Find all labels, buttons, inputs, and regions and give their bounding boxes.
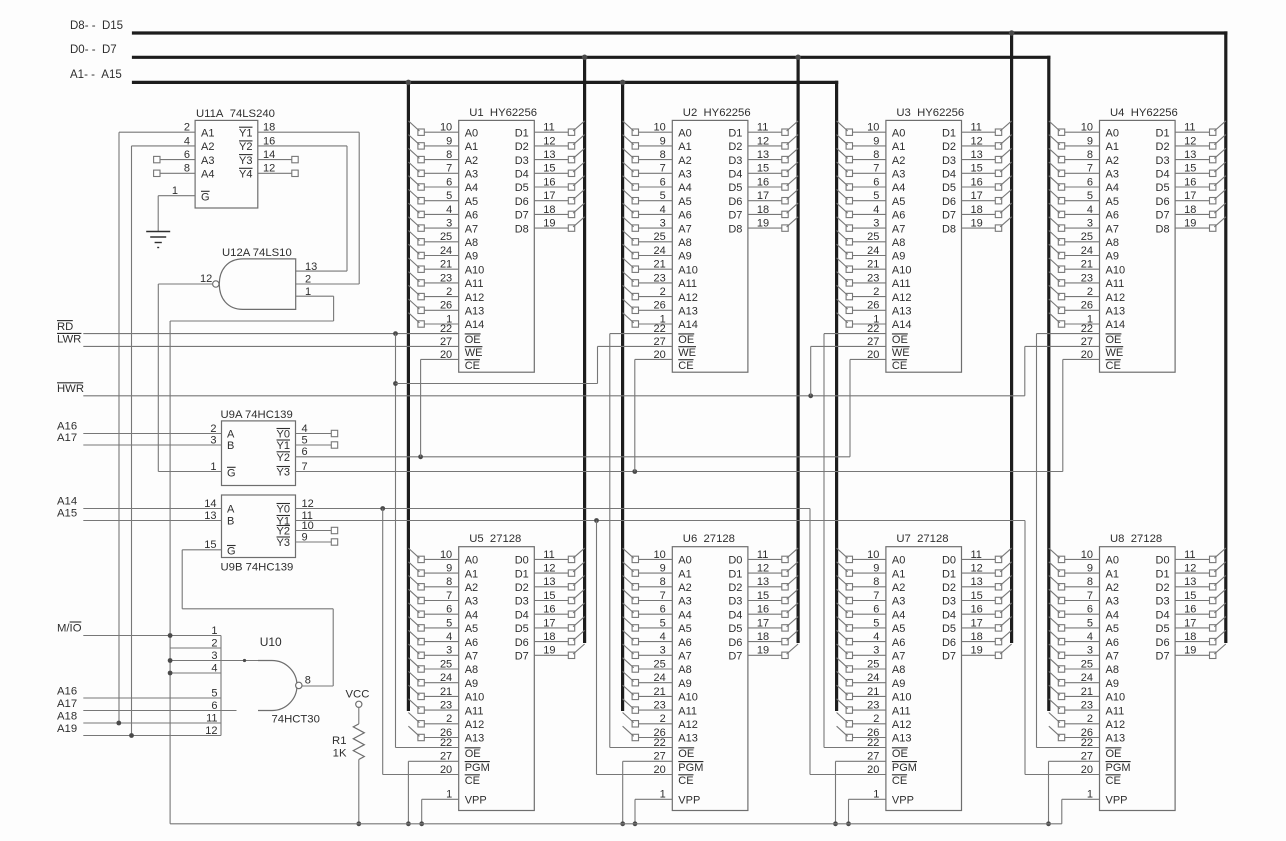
svg-text:7: 7 [660,163,666,175]
svg-text:A2: A2 [678,155,691,167]
SRAM U3 HY62256 [837,107,1012,372]
svg-text:A2: A2 [892,582,905,594]
svg-text:D8: D8 [1156,223,1170,235]
svg-text:16: 16 [1184,176,1196,188]
svg-text:A12: A12 [678,292,698,304]
svg-text:A8: A8 [892,664,905,676]
svg-text:A12: A12 [892,292,912,304]
svg-text:8: 8 [1087,149,1093,161]
svg-text:13: 13 [971,149,983,161]
svg-text:D3: D3 [942,155,956,167]
svg-text:A11: A11 [678,705,697,717]
wire U10 pin3 (gate input) [170,660,258,662]
svg-text:16: 16 [543,176,555,188]
svg-text:OE: OE [1106,748,1122,760]
wire A14 to U9B pin14 [83,508,221,510]
svg-text:D6: D6 [515,196,529,208]
svg-text:16: 16 [543,604,555,616]
svg-text:A10: A10 [892,264,912,276]
svg-text:10: 10 [867,549,879,561]
svg-text:15: 15 [543,590,555,602]
svg-text:A12: A12 [1106,292,1126,304]
svg-text:13: 13 [757,576,769,588]
svg-text:25: 25 [867,658,879,670]
svg-text:D0: D0 [942,555,956,567]
svg-text:13: 13 [1184,576,1196,588]
svg-text:A3: A3 [1106,596,1119,608]
svg-text:18: 18 [971,631,983,643]
wire Y0 select row (U5/U7 CE) [296,508,811,510]
svg-text:A16: A16 [57,421,77,433]
svg-text:4: 4 [873,631,879,643]
svg-text:WE: WE [678,347,696,359]
svg-text:1: 1 [210,461,216,473]
svg-text:A5: A5 [678,623,691,635]
SRAM U2 HY62256 [623,107,799,372]
svg-text:19: 19 [971,218,983,230]
wire M/IO column (vertical) [169,321,171,824]
svg-text:9: 9 [446,135,452,147]
svg-text:7: 7 [873,163,879,175]
svg-text:D3: D3 [515,155,529,167]
svg-text:9: 9 [1087,135,1093,147]
svg-text:D1: D1 [728,568,742,580]
net label RD [57,320,73,322]
svg-text:D2: D2 [728,582,742,594]
svg-text:15: 15 [757,590,769,602]
svg-text:A5: A5 [1106,623,1119,635]
wire U1 CE from Y2 [421,358,459,360]
svg-text:VPP: VPP [678,795,700,807]
svg-text:D4: D4 [515,609,529,621]
svg-text:17: 17 [971,617,983,629]
svg-text:25: 25 [654,658,666,670]
svg-text:25: 25 [440,231,452,243]
svg-text:A2: A2 [465,582,478,594]
wire ground rail [170,823,1062,825]
svg-text:CE: CE [892,360,907,372]
data bus drop to U4/U8 [1224,31,1227,643]
wire U4 OE chain to U8 OE [1037,333,1100,335]
SRAM U4 HY62256 [1049,107,1226,372]
svg-text:D7: D7 [1156,210,1170,222]
svg-text:A0: A0 [892,127,905,139]
wire HWR row [83,395,1025,397]
svg-text:1K: 1K [333,748,347,760]
svg-text:A0: A0 [1106,127,1119,139]
svg-text:9: 9 [1087,563,1093,575]
wire U8 CE from Y1 [1025,774,1100,776]
wire A17 to U9A pin3 [83,444,221,446]
wire Y1 select row (U6/U8 CE) [296,520,1026,522]
wire U10 pin4 [170,672,221,674]
svg-text:17: 17 [543,617,555,629]
svg-text:A14: A14 [892,319,912,331]
wire A18 to U10 pin11 [83,722,221,724]
svg-text:5: 5 [1087,617,1093,629]
svg-text:23: 23 [1081,700,1093,712]
buffer U11A 74LS240 [172,108,275,208]
wire U11A pin2 (A1) to A18 column [119,131,195,133]
svg-text:OE: OE [892,748,908,760]
svg-text:A8: A8 [892,237,905,249]
svg-text:A2: A2 [465,155,478,167]
svg-text:8: 8 [305,674,311,686]
svg-text:16: 16 [757,604,769,616]
svg-text:21: 21 [654,686,666,698]
wire U12A pin12 to U9A G [158,283,212,285]
svg-text:12: 12 [1184,135,1196,147]
junction U7 PGM/rail [833,821,838,826]
svg-text:2: 2 [446,713,452,725]
wire U3 CE from Y2 [850,358,886,360]
svg-text:VCC: VCC [346,689,370,701]
svg-text:A7: A7 [678,223,691,235]
svg-text:24: 24 [1081,245,1093,257]
svg-text:A10: A10 [892,692,912,704]
svg-text:15: 15 [1184,590,1196,602]
data bus drop to U1/U5 [583,56,586,643]
svg-text:25: 25 [440,658,452,670]
wire U7 OE stub [824,747,886,749]
svg-text:3: 3 [446,218,452,230]
svg-text:A7: A7 [465,223,478,235]
wire U7 PGM to rail [836,760,886,762]
wire U7 CE from Y0 [810,774,886,776]
svg-text:D3: D3 [1156,155,1170,167]
svg-text:D6: D6 [728,637,742,649]
svg-text:11: 11 [1184,122,1195,134]
svg-text:A2: A2 [201,141,214,153]
svg-text:A15: A15 [57,508,77,520]
svg-text:8: 8 [446,149,452,161]
wire A19 to U10 pin12 [83,735,221,737]
svg-text:A0: A0 [465,555,478,567]
svg-text:10: 10 [1081,122,1093,134]
3-input NAND U12A 74LS10 [200,247,317,309]
junction D0-bus / U1 data drop [582,55,588,61]
U10 input pin ladder [205,625,221,737]
svg-text:15: 15 [757,163,769,175]
junction U5 PGM/rail [406,821,411,826]
svg-text:18: 18 [757,631,769,643]
wire A17 to U10 pin6 [83,710,236,712]
svg-text:4: 4 [660,204,666,216]
svg-text:A14: A14 [678,319,698,331]
svg-text:WE: WE [465,347,483,359]
bus D8--D15 [132,31,1228,34]
wire U2 OE chain to U6 OE [610,333,673,335]
svg-text:A8: A8 [678,237,691,249]
svg-text:D7: D7 [1156,651,1170,663]
svg-text:U6 27128: U6 27128 [683,533,735,545]
svg-text:D6: D6 [942,196,956,208]
svg-text:A17: A17 [57,432,77,444]
svg-text:A12: A12 [465,719,485,731]
svg-text:23: 23 [654,272,666,284]
svg-text:A13: A13 [1106,306,1126,318]
svg-text:17: 17 [1184,190,1196,202]
wire U10 output to U9B G [182,549,221,551]
wire U11A pin4 (A2) to A19 column [132,145,196,147]
svg-text:8: 8 [446,576,452,588]
svg-text:U5 27128: U5 27128 [469,533,521,545]
svg-text:15: 15 [1184,163,1196,175]
svg-text:A9: A9 [892,678,905,690]
svg-text:Y3: Y3 [239,155,252,167]
svg-text:A14: A14 [465,319,485,331]
svg-text:D5: D5 [515,623,529,635]
svg-text:D6: D6 [1156,196,1170,208]
svg-text:8: 8 [660,149,666,161]
svg-text:11: 11 [757,549,768,561]
wire A16 to U9A pin2 [83,433,221,435]
svg-text:A16: A16 [57,685,77,697]
svg-text:13: 13 [757,149,769,161]
svg-text:G: G [227,546,236,558]
svg-text:U4 HY62256: U4 HY62256 [1110,107,1178,119]
svg-text:PGM: PGM [678,762,703,774]
svg-text:A8: A8 [678,664,691,676]
svg-text:19: 19 [757,645,769,657]
svg-text:13: 13 [543,149,555,161]
svg-text:PGM: PGM [1106,762,1131,774]
svg-text:6: 6 [1087,176,1093,188]
svg-text:7: 7 [446,163,452,175]
junction A-bus / U1 drop [406,80,412,86]
svg-text:4: 4 [446,631,452,643]
svg-text:PGM: PGM [465,762,490,774]
junction A-bus / U2 drop [620,80,626,86]
svg-text:D3: D3 [728,596,742,608]
svg-text:3: 3 [873,645,879,657]
svg-text:A1: A1 [465,141,478,153]
wire branch to U2 WE [396,383,598,385]
svg-text:A9: A9 [465,678,478,690]
svg-text:A6: A6 [892,210,905,222]
junction pin3 [168,658,173,663]
terminal U11A pin6 (A3) [154,156,160,162]
svg-text:12: 12 [1184,563,1196,575]
svg-text:8: 8 [660,576,666,588]
svg-text:Y3: Y3 [277,467,290,479]
bus D0--D7 [132,56,1051,59]
ground [146,231,170,233]
junction R1/rail [356,821,361,826]
svg-text:A1: A1 [465,568,478,580]
svg-text:U12A 74LS10: U12A 74LS10 [222,247,292,259]
svg-text:D6: D6 [728,196,742,208]
svg-text:12: 12 [200,273,212,285]
svg-text:OE: OE [1106,334,1122,346]
svg-text:A6: A6 [1106,210,1119,222]
svg-text:A7: A7 [1106,223,1119,235]
svg-text:U8 27128: U8 27128 [1110,533,1162,545]
svg-text:A8: A8 [1106,237,1119,249]
svg-text:A1: A1 [1106,141,1119,153]
svg-text:A4: A4 [465,609,478,621]
svg-text:5: 5 [1087,190,1093,202]
svg-text:OE: OE [465,334,481,346]
svg-text:D8: D8 [728,223,742,235]
wire U7 VPP to rail [849,798,886,800]
svg-text:24: 24 [867,672,879,684]
svg-text:D0: D0 [515,555,529,567]
svg-text:16: 16 [971,604,983,616]
svg-text:OE: OE [678,334,694,346]
svg-text:OE: OE [678,748,694,760]
svg-text:12: 12 [971,563,983,575]
wire VCC to R1 [358,707,360,724]
junction U6 PGM/rail [620,821,625,826]
svg-text:3: 3 [1087,218,1093,230]
wire Y3 select row (U2/U4 CE) [296,471,1063,473]
svg-text:17: 17 [757,617,769,629]
svg-text:5: 5 [873,617,879,629]
svg-text:A11: A11 [892,705,911,717]
svg-text:2: 2 [873,286,879,298]
wire U3 OE chain to U7 OE [824,333,886,335]
svg-text:D0: D0 [1156,555,1170,567]
svg-text:VPP: VPP [1106,795,1128,807]
svg-text:A7: A7 [465,651,478,663]
svg-text:A10: A10 [678,692,698,704]
svg-text:24: 24 [440,672,452,684]
wire A16 to U10 pin5 [83,697,221,699]
svg-text:A5: A5 [892,196,905,208]
svg-text:A6: A6 [892,637,905,649]
svg-text:A11: A11 [1106,705,1125,717]
svg-text:21: 21 [440,686,452,698]
svg-text:19: 19 [1184,645,1196,657]
svg-text:17: 17 [543,190,555,202]
svg-text:A0: A0 [678,555,691,567]
svg-text:LWR: LWR [57,334,81,346]
wire U10 pin2 [170,647,221,649]
svg-text:6: 6 [446,176,452,188]
svg-text:3: 3 [446,645,452,657]
terminal U11A pin12 (Y4) [258,172,292,174]
svg-text:18: 18 [757,204,769,216]
svg-text:A5: A5 [892,623,905,635]
svg-text:CE: CE [465,775,480,787]
svg-text:U9A 74HC139: U9A 74HC139 [221,409,293,421]
svg-text:5: 5 [660,617,666,629]
svg-text:12: 12 [543,563,555,575]
svg-text:16: 16 [971,176,983,188]
bus drop to U4/U8 (from D0--D7) [1047,56,1050,711]
junction Y0/U5-CE [380,506,385,511]
svg-text:17: 17 [1184,617,1196,629]
svg-text:19: 19 [1184,218,1196,230]
svg-text:A: A [227,504,235,516]
svg-text:A12: A12 [465,292,485,304]
junction U5 VPP/rail [419,821,424,826]
svg-text:2: 2 [873,713,879,725]
EPROM U6 27128 [623,533,799,810]
terminal U11A pin8 (A4) [154,170,160,176]
wire U2 WE stub [598,345,673,347]
svg-text:D1: D1 [728,127,742,139]
wire U11A pin18 (Y1) to U12A pin2 [258,131,359,133]
svg-text:G: G [227,468,236,480]
svg-text:16: 16 [757,176,769,188]
svg-text:23: 23 [440,272,452,284]
svg-text:15: 15 [971,163,983,175]
junction D0-bus / U2 data drop [795,55,801,61]
svg-text:23: 23 [440,700,452,712]
svg-text:A11: A11 [678,278,697,290]
svg-text:B: B [227,516,234,528]
svg-text:26: 26 [1081,300,1093,312]
svg-text:D8: D8 [942,223,956,235]
data bus drop to U2/U6 [796,56,799,643]
svg-text:A14: A14 [1106,319,1126,331]
EPROM U5 27128 [408,533,584,810]
svg-text:D8- - D15: D8- - D15 [70,20,123,32]
svg-text:D5: D5 [515,182,529,194]
svg-text:A2: A2 [678,582,691,594]
svg-text:18: 18 [1184,204,1196,216]
svg-text:U11A 74LS240: U11A 74LS240 [196,108,275,120]
svg-text:25: 25 [1081,658,1093,670]
svg-text:D3: D3 [1156,596,1170,608]
EPROM U8 27128 [1049,533,1226,810]
svg-text:21: 21 [1081,686,1093,698]
svg-text:A10: A10 [465,692,485,704]
svg-text:4: 4 [1087,204,1093,216]
wire U6 CE from Y1 [597,774,673,776]
svg-text:A3: A3 [892,596,905,608]
svg-text:A13: A13 [892,306,912,318]
junction M/IO pin1 [168,633,173,638]
svg-text:D4: D4 [942,609,956,621]
svg-text:A19: A19 [57,723,77,735]
svg-text:A9: A9 [678,251,691,263]
svg-text:A4: A4 [1106,182,1119,194]
svg-text:A6: A6 [1106,637,1119,649]
svg-text:A2: A2 [1106,582,1119,594]
bus A1--A15 [132,81,838,84]
svg-text:23: 23 [654,700,666,712]
svg-text:24: 24 [1081,672,1093,684]
junction A19/U11A-A2 [129,733,134,738]
svg-text:A1: A1 [201,127,214,139]
svg-text:2: 2 [305,273,311,285]
svg-text:10: 10 [867,122,879,134]
junction A18/U11A-A1 [116,721,121,726]
svg-text:U9B 74HC139: U9B 74HC139 [221,562,294,574]
svg-text:A18: A18 [57,710,77,722]
svg-text:D4: D4 [942,169,956,181]
svg-text:D1: D1 [1156,568,1170,580]
wire U10 output pin8 [302,685,333,687]
svg-text:G: G [201,192,210,204]
terminal U9A pin4 (Y0) [296,433,332,435]
svg-text:A11: A11 [465,705,484,717]
wire U5 PGM to rail [408,760,458,762]
svg-text:11: 11 [757,122,768,134]
svg-text:A12: A12 [1106,719,1126,731]
svg-text:23: 23 [867,700,879,712]
svg-text:D4: D4 [1156,169,1170,181]
svg-text:A7: A7 [892,651,905,663]
svg-text:11: 11 [971,122,982,134]
EPROM U7 27128 [837,533,1012,810]
svg-text:A: A [227,429,235,441]
wire Y2 select row (U1/U3 CE) [296,456,851,458]
svg-text:CE: CE [1106,360,1121,372]
